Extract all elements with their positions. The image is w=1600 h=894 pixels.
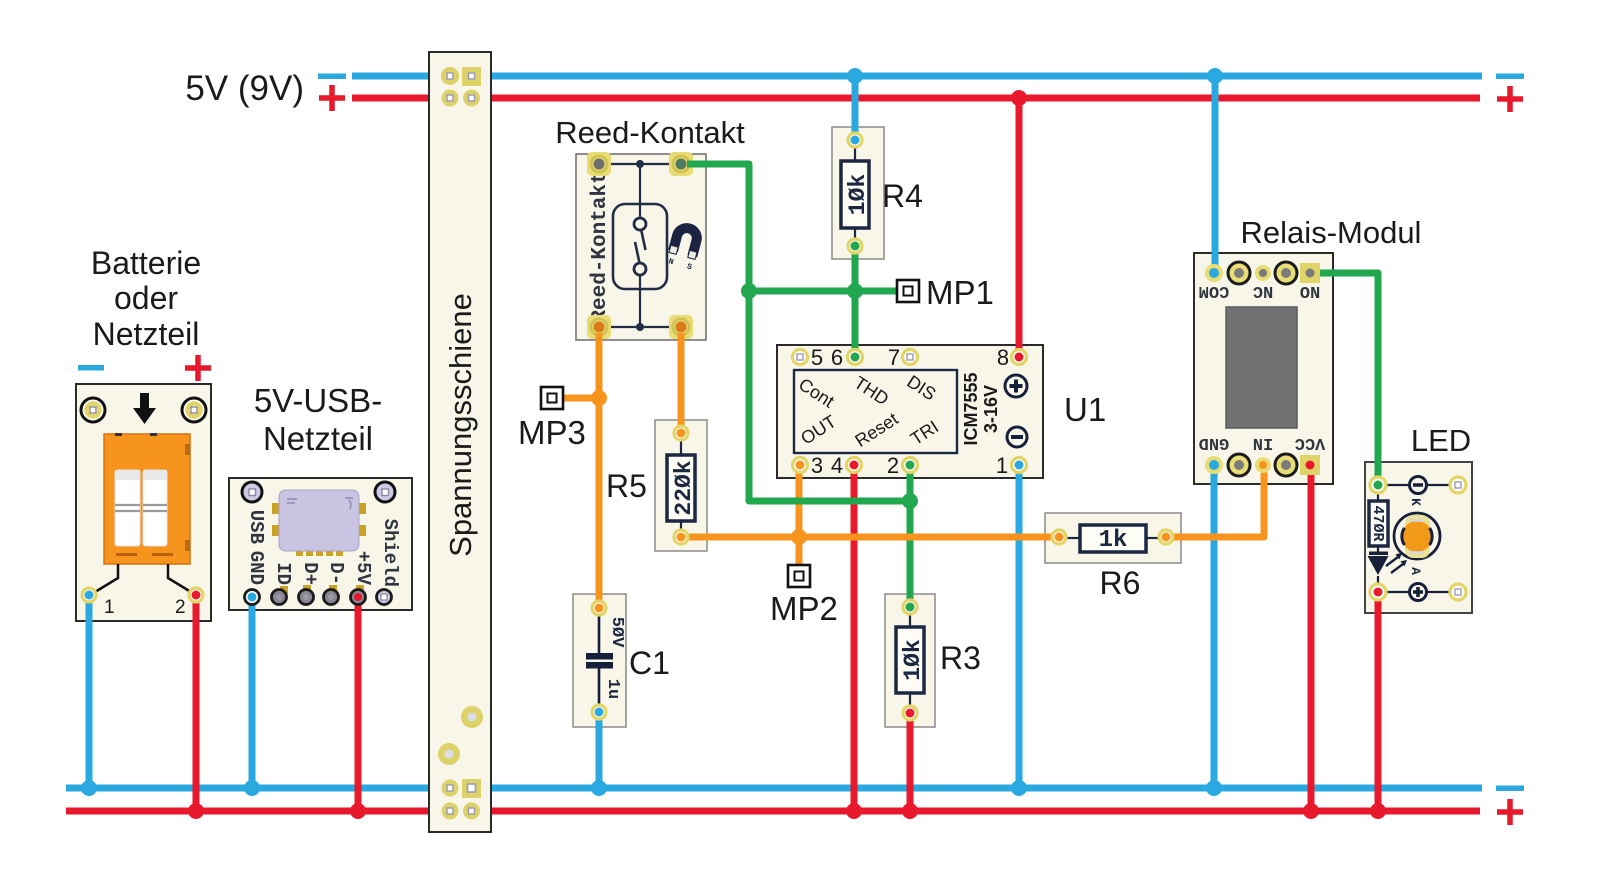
svg-text:MP3: MP3 <box>518 414 586 451</box>
minus terminal bottom-right <box>1496 786 1524 792</box>
R5 pad top <box>674 426 688 440</box>
wire R6 to relay IN (orange) <box>1166 466 1264 537</box>
svg-text:COM: COM <box>1199 281 1230 300</box>
relay pad ring top-2 <box>1275 262 1297 284</box>
resistor R3 board <box>885 594 935 727</box>
U1 plus symbol <box>1005 375 1027 397</box>
LED plus symbol <box>1410 584 1427 601</box>
LED A label <box>1408 567 1423 575</box>
svg-text:R6: R6 <box>1100 565 1141 601</box>
C1 pad bottom <box>592 705 606 719</box>
reed internal schematic <box>599 160 681 331</box>
svg-text:1Øk: 1Øk <box>900 639 926 681</box>
battery plus mark <box>185 355 211 381</box>
test point MP1 <box>897 280 919 302</box>
reed silk vertical label <box>589 171 612 322</box>
power rail board Spannungsschiene <box>429 52 491 832</box>
svg-text:LED: LED <box>1411 423 1471 458</box>
svg-text:U1: U1 <box>1064 391 1106 428</box>
svg-text:5V-USB-: 5V-USB- <box>254 382 382 419</box>
U1 part label ICM7555 3-16V <box>961 372 1001 445</box>
R6 pad left <box>1052 530 1066 544</box>
rail board pad lowest-left (plus) <box>442 803 459 820</box>
relay pad ring bottom-2 <box>1275 454 1297 476</box>
svg-text:K: K <box>1408 498 1423 506</box>
reed pad top-left <box>587 152 611 176</box>
wire top plus rail (red) <box>352 95 1480 102</box>
svg-text:ICM7555: ICM7555 <box>961 372 981 445</box>
plus terminal top-right <box>1497 86 1523 112</box>
relay pad NO <box>1300 263 1320 283</box>
R4 pad top <box>848 133 862 147</box>
USB silk labels <box>245 510 401 587</box>
rail board pad lowest-right (plus) <box>463 803 480 820</box>
label MP1 <box>926 274 994 311</box>
U1 pad pin1 <box>1012 458 1027 473</box>
svg-text:MP1: MP1 <box>926 274 994 311</box>
rail board free pad upper <box>461 706 483 728</box>
R4 pad bottom <box>848 239 862 253</box>
wire node to MP1 (green) <box>749 288 897 295</box>
svg-text:NC: NC <box>1253 281 1273 300</box>
minus terminal top-left <box>318 74 346 80</box>
svg-text:47ØR: 47ØR <box>1369 505 1386 541</box>
svg-text:+5V: +5V <box>352 551 374 586</box>
net label 5V (9V) <box>185 69 304 108</box>
wire bottom plus rail (red) <box>66 808 1480 815</box>
C1 pad top <box>592 601 606 615</box>
rail board pad mid-left (plus) <box>442 90 459 107</box>
svg-text:1: 1 <box>996 453 1008 478</box>
wire reed top-right to U1 pin2 node (green) <box>687 164 910 501</box>
svg-text:A: A <box>1408 567 1423 575</box>
battery pad 1 <box>82 588 96 602</box>
resistor R6 board <box>1045 513 1181 563</box>
relay module board Relais-Modul <box>1194 253 1333 484</box>
wire U1 pin4 to plus rail (red) <box>851 465 858 811</box>
svg-text:R3: R3 <box>940 640 981 676</box>
USB pad +5V <box>351 585 366 605</box>
wire relay GND to minus rail (blue) <box>1211 466 1218 788</box>
LED diode symbol <box>1368 552 1408 576</box>
LED pad top-right <box>1450 477 1466 493</box>
wire R3 to plus rail (red) <box>907 713 914 811</box>
label U1 <box>1064 391 1106 428</box>
wire C1 to minus rail (blue) <box>596 712 603 788</box>
plus terminal bottom-right <box>1497 799 1523 825</box>
USB pad GND <box>245 590 260 605</box>
svg-text:2: 2 <box>175 597 186 618</box>
svg-text:C1: C1 <box>629 645 670 681</box>
wire top minus rail (blue) <box>352 73 1482 80</box>
USB mounting hole left <box>242 482 262 502</box>
svg-text:6: 6 <box>831 345 843 370</box>
battery lead 1 <box>95 564 118 592</box>
label R4 <box>882 178 923 214</box>
svg-text:5: 5 <box>811 345 823 370</box>
svg-text:3-16V: 3-16V <box>981 385 1001 433</box>
wire USB +5V to rail <box>355 597 362 811</box>
R5 pad bottom <box>674 530 688 544</box>
label C1 <box>629 645 670 681</box>
U1 pad pin4 <box>847 458 862 473</box>
svg-text:ID: ID <box>272 562 294 585</box>
wire reed bottom-left to C1 (orange) <box>596 333 603 608</box>
U1 rotated pin-function labels <box>795 371 942 451</box>
USB pad D- <box>324 585 339 605</box>
LED module board <box>1365 462 1472 613</box>
battery terminal block <box>104 433 190 564</box>
relay pad ring bottom-1 <box>1228 454 1250 476</box>
svg-text:GND: GND <box>1199 433 1230 452</box>
relay pad COM <box>1205 264 1223 282</box>
svg-text:2: 2 <box>887 453 899 478</box>
battery mounting hole right <box>182 398 206 422</box>
LED module internal traces <box>1378 485 1449 592</box>
svg-text:IN: IN <box>1253 433 1273 452</box>
resistor R4 board <box>832 127 884 259</box>
USB pad ID <box>272 586 289 605</box>
wire plus rail to U1 pin8 (red) <box>1016 98 1023 357</box>
battery minus mark <box>78 365 104 371</box>
battery module board Batterie oder Netzteil <box>76 384 211 621</box>
svg-text:Spannungsschiene: Spannungsschiene <box>443 293 478 557</box>
svg-text:Netzteil: Netzteil <box>263 420 373 457</box>
U1 pad pin7 <box>903 350 918 365</box>
LED lamp <box>1394 513 1440 559</box>
reed pad bottom-left <box>587 315 611 339</box>
svg-text:GND: GND <box>245 551 267 585</box>
LED pad top-left <box>1370 477 1386 493</box>
svg-text:1u: 1u <box>603 679 622 699</box>
battery pin labels <box>104 597 186 618</box>
label MP2 <box>770 590 838 627</box>
LED pad bottom-left <box>1370 584 1386 600</box>
wire minus rail to R4 (blue) <box>852 76 859 140</box>
wire bottom minus rail (blue) <box>66 785 1482 792</box>
LED module title <box>1411 423 1471 458</box>
LED pad bottom-right <box>1450 584 1466 600</box>
LED K label <box>1408 498 1423 506</box>
junction dots orange <box>591 390 807 545</box>
svg-text:NO: NO <box>1300 281 1320 300</box>
svg-text:Netzteil: Netzteil <box>93 316 200 352</box>
relay pad IN <box>1255 457 1271 473</box>
wire U1 pin3 to MP2 (orange) <box>796 465 803 566</box>
op-amp/timer U1 ICM7555 board <box>777 345 1043 478</box>
U1 pad pin2 <box>903 458 918 473</box>
rail board free pad lower <box>438 743 460 765</box>
junction dots blue <box>81 68 1223 796</box>
U1 minus symbol <box>1007 427 1027 447</box>
svg-text:R5: R5 <box>606 468 647 504</box>
plus terminal top-left <box>319 85 345 111</box>
R6 pad right <box>1159 530 1173 544</box>
U1 pad pin3 <box>793 458 808 473</box>
reed pad top-right <box>669 152 693 176</box>
junction dots red <box>188 90 1386 819</box>
relay module title <box>1241 215 1422 250</box>
svg-text:Relais-Modul: Relais-Modul <box>1241 215 1422 250</box>
svg-text:Shield: Shield <box>379 519 401 587</box>
rail board pad mid-right (plus) <box>463 90 480 107</box>
USB connector <box>272 490 366 556</box>
wire LED to plus rail (red) <box>1375 592 1382 811</box>
battery title <box>91 245 201 352</box>
svg-text:22Øk: 22Øk <box>671 460 697 515</box>
junction dots green <box>741 283 918 509</box>
battery pad 2 <box>189 588 203 602</box>
battery polarity arrow <box>133 393 156 424</box>
svg-text:1k: 1k <box>1099 527 1128 554</box>
wire reed bottom-right to R5 (orange) <box>678 333 685 433</box>
wire relay NO to LED (green) <box>1314 273 1378 485</box>
svg-text:5V (9V): 5V (9V) <box>185 69 304 108</box>
U1 pad pin5 <box>793 350 808 365</box>
label R3 <box>940 640 981 676</box>
wire U1 pin2 to R3 (green) <box>907 465 914 607</box>
USB module board 5V-USB-Netzteil <box>229 478 412 610</box>
test point MP2 <box>788 565 810 587</box>
wire battery minus to rail <box>86 595 93 788</box>
test point MP3 <box>541 387 563 409</box>
svg-text:Reed-Kontakt: Reed-Kontakt <box>555 115 745 150</box>
USB pad D+ <box>299 585 314 605</box>
svg-text:R4: R4 <box>882 178 923 214</box>
label R6 <box>1100 565 1141 601</box>
LED resistor 470R <box>1369 501 1388 546</box>
reed contact module board <box>576 154 706 340</box>
U1 pin numbers <box>811 345 1009 478</box>
svg-text:1Øk: 1Øk <box>845 174 871 216</box>
battery mounting hole left <box>81 398 105 422</box>
relay pad NC <box>1255 265 1271 281</box>
relay pad VCC <box>1300 455 1320 475</box>
svg-text:D+: D+ <box>299 562 321 585</box>
svg-text:8: 8 <box>997 345 1009 370</box>
svg-text:4: 4 <box>831 453 843 478</box>
svg-text:Reed-Kontakt: Reed-Kontakt <box>589 171 612 322</box>
svg-text:D-: D- <box>325 562 347 585</box>
wire minus rail to relay COM (blue) <box>1212 76 1219 273</box>
wire R4 to U1 pin6 (green) <box>852 246 859 357</box>
label MP3 <box>518 414 586 451</box>
U1 pad pin6 <box>848 350 863 365</box>
USB module title <box>254 382 382 457</box>
label R5 <box>606 468 647 504</box>
wire R5 to R6 (orange) <box>681 534 1059 541</box>
reed pad bottom-right <box>669 315 693 339</box>
USB mounting hole right <box>375 482 395 502</box>
reed magnet icon <box>665 225 702 273</box>
svg-text:Batterie: Batterie <box>91 245 201 281</box>
LED minus symbol <box>1410 477 1427 494</box>
relay pad ring top-1 <box>1228 262 1250 284</box>
battery lead 2 <box>168 564 191 592</box>
wire USB GND to rail <box>249 597 256 788</box>
wire relay VCC to plus rail (red) <box>1308 466 1315 811</box>
svg-text:USB: USB <box>245 510 267 544</box>
R3 pad bottom <box>903 706 917 720</box>
wire U1 pin1 to minus rail (blue) <box>1016 465 1023 788</box>
wire MP3 stub (orange) <box>563 395 599 402</box>
USB pad Shield <box>377 590 392 605</box>
R3 pad top <box>903 600 917 614</box>
svg-text:MP2: MP2 <box>770 590 838 627</box>
minus terminal top-right <box>1496 74 1524 80</box>
svg-text:5ØV: 5ØV <box>607 617 626 648</box>
rail board pad top-left (minus) <box>442 68 459 85</box>
svg-text:1: 1 <box>104 597 115 618</box>
wire battery plus to rail <box>193 595 200 811</box>
relay silk labels <box>1199 281 1326 452</box>
rail board pad bottom-right square (minus) <box>462 779 481 798</box>
capacitor C1 board <box>573 594 626 727</box>
U1 pad pin8 <box>1012 350 1027 365</box>
svg-text:VCC: VCC <box>1295 433 1326 452</box>
reed module title <box>555 115 745 150</box>
rail board pad bottom-left (minus) <box>442 780 459 797</box>
svg-text:3: 3 <box>811 453 823 478</box>
resistor R5 board <box>655 420 707 551</box>
rail board pad top-right square (minus) <box>462 67 481 86</box>
svg-text:7: 7 <box>888 345 900 370</box>
relay pad GND <box>1205 456 1223 474</box>
svg-text:oder: oder <box>114 280 178 316</box>
